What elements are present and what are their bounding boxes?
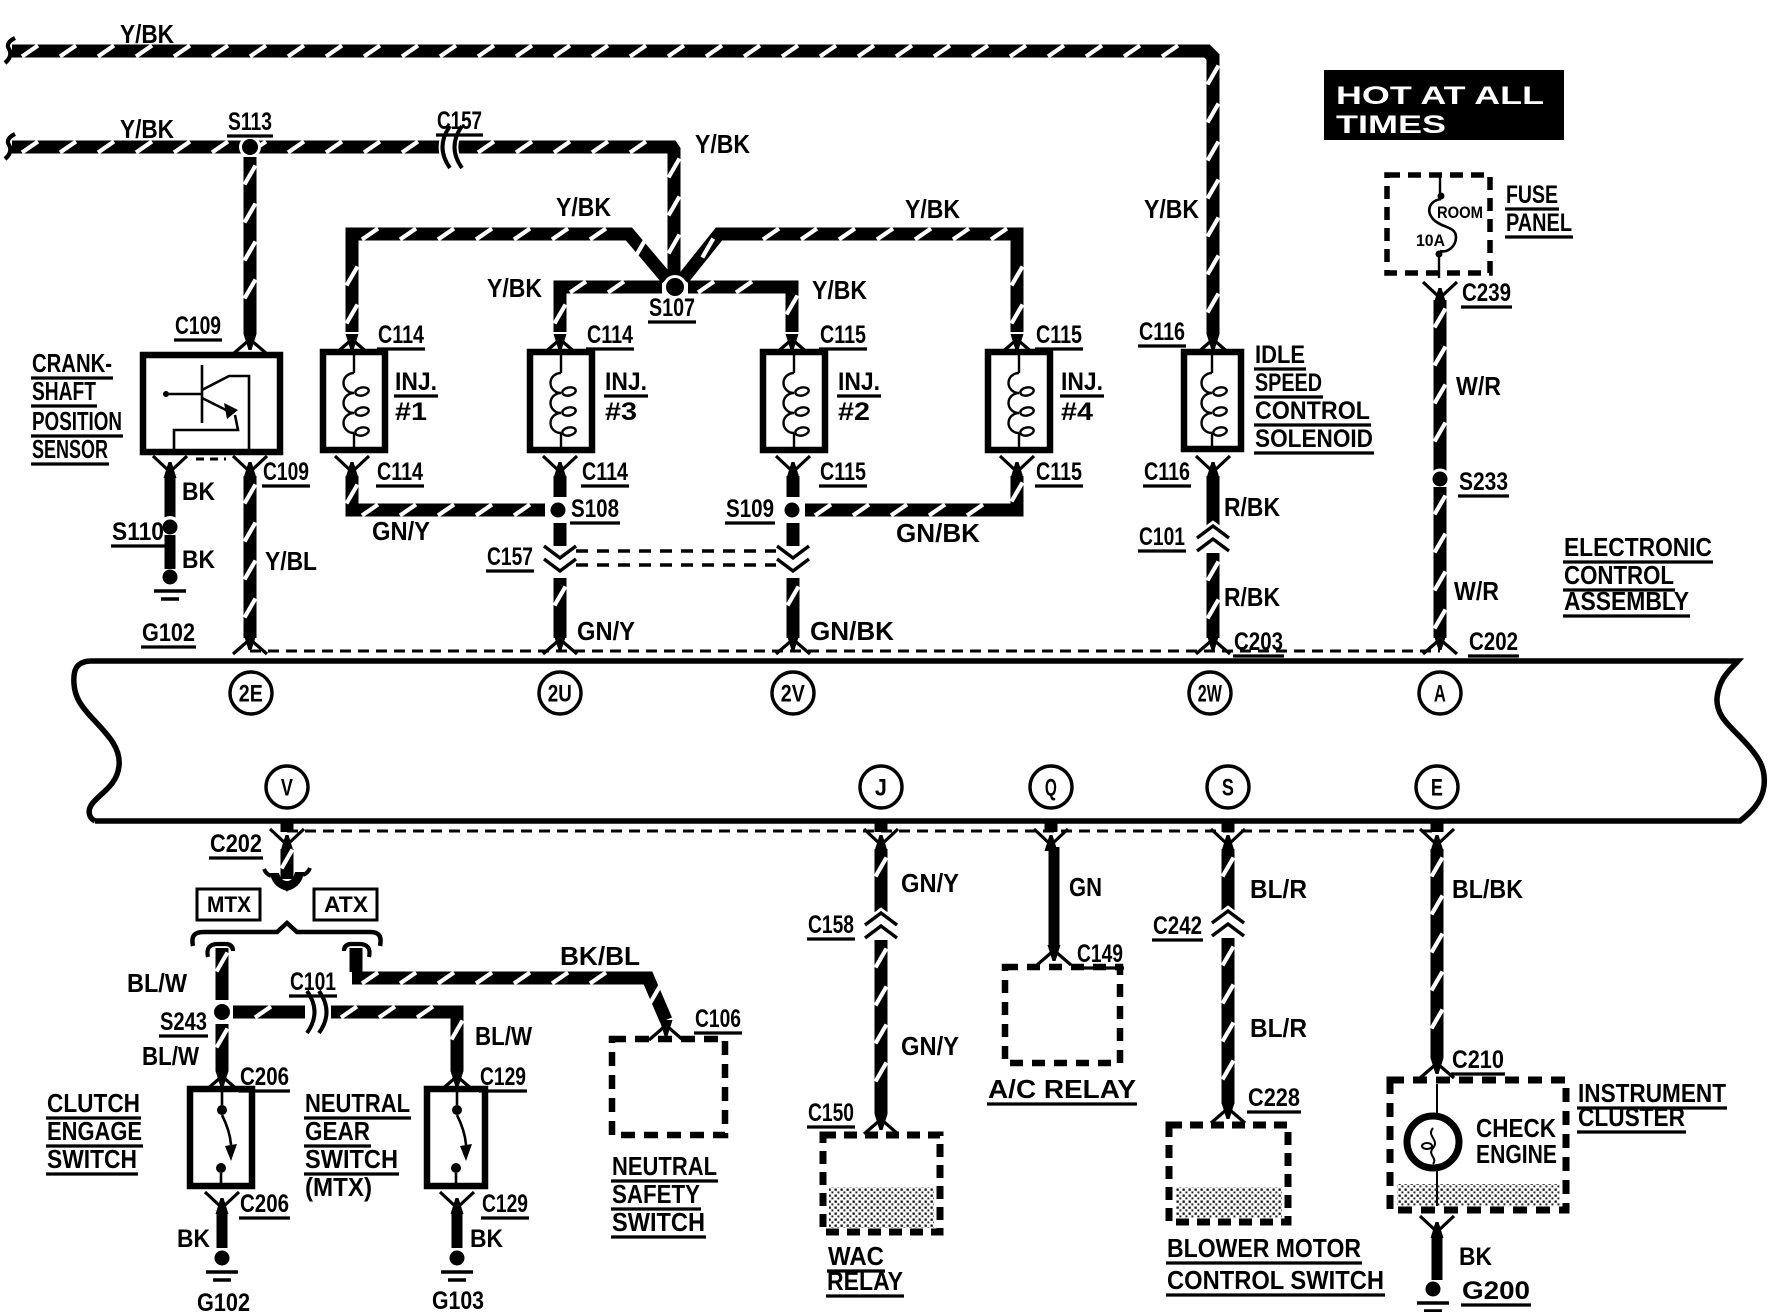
svg-text:BL/W: BL/W	[127, 968, 187, 998]
svg-text:IDLE: IDLE	[1255, 341, 1305, 369]
svg-text:CRANK-: CRANK-	[32, 348, 112, 378]
svg-text:ATX: ATX	[324, 892, 368, 917]
svg-text:V: V	[281, 775, 293, 802]
svg-text:ELECTRONIC: ELECTRONIC	[1564, 532, 1712, 562]
svg-text:G102: G102	[197, 1289, 250, 1312]
svg-text:S233: S233	[1459, 468, 1508, 496]
svg-text:C202: C202	[210, 830, 262, 858]
svg-text:C228: C228	[1248, 1084, 1300, 1112]
svg-text:Y/BK: Y/BK	[120, 114, 174, 144]
svg-text:C157: C157	[487, 543, 533, 571]
svg-text:A: A	[1434, 681, 1446, 708]
svg-text:C202: C202	[1469, 628, 1518, 656]
svg-text:C129: C129	[482, 1190, 528, 1218]
svg-text:C116: C116	[1144, 458, 1190, 486]
svg-text:BL/W: BL/W	[142, 1041, 199, 1071]
svg-text:BK/BL: BK/BL	[560, 941, 640, 971]
svg-text:2W: 2W	[1198, 681, 1222, 708]
svg-text:NEUTRAL: NEUTRAL	[612, 1151, 717, 1181]
svg-text:2E: 2E	[239, 681, 263, 708]
svg-text:SWITCH: SWITCH	[47, 1144, 137, 1174]
svg-text:BK: BK	[182, 546, 215, 574]
svg-text:CLUSTER: CLUSTER	[1578, 1102, 1685, 1132]
svg-text:HOT AT ALL: HOT AT ALL	[1336, 82, 1544, 110]
svg-text:Y/BK: Y/BK	[120, 19, 174, 49]
svg-text:S: S	[1222, 775, 1234, 802]
svg-text:(MTX): (MTX)	[305, 1172, 372, 1202]
svg-text:C114: C114	[582, 458, 628, 486]
svg-text:BK: BK	[1459, 1243, 1492, 1271]
svg-text:CLUTCH: CLUTCH	[47, 1088, 140, 1118]
svg-text:C114: C114	[378, 321, 424, 349]
svg-text:S243: S243	[160, 1008, 207, 1036]
svg-text:BL/R: BL/R	[1250, 874, 1307, 904]
svg-text:ROOM: ROOM	[1437, 203, 1483, 222]
svg-text:BK: BK	[177, 1225, 210, 1253]
svg-text:MTX: MTX	[207, 892, 251, 917]
svg-text:BL/BK: BL/BK	[1452, 874, 1523, 904]
svg-text:CONTROL: CONTROL	[1255, 397, 1370, 425]
svg-text:S113: S113	[228, 108, 272, 136]
svg-text:SENSOR: SENSOR	[32, 434, 108, 464]
svg-text:R/BK: R/BK	[1224, 492, 1280, 522]
svg-text:C129: C129	[480, 1063, 526, 1091]
svg-text:SWITCH: SWITCH	[305, 1144, 398, 1174]
svg-text:C109: C109	[175, 312, 221, 340]
svg-text:INJ.: INJ.	[1061, 368, 1103, 396]
svg-text:SOLENOID: SOLENOID	[1255, 425, 1373, 453]
svg-text:ENGAGE: ENGAGE	[47, 1116, 142, 1146]
svg-text:C157: C157	[437, 107, 482, 135]
svg-text:GEAR: GEAR	[305, 1116, 370, 1146]
svg-text:C206: C206	[240, 1063, 289, 1091]
svg-text:S110: S110	[112, 518, 164, 546]
svg-text:C239: C239	[1462, 279, 1511, 307]
svg-text:G102: G102	[142, 619, 195, 647]
svg-text:BK: BK	[470, 1225, 503, 1253]
svg-text:C115: C115	[1036, 458, 1082, 486]
svg-text:A/C RELAY: A/C RELAY	[988, 1074, 1136, 1104]
svg-text:SAFETY: SAFETY	[612, 1179, 700, 1209]
svg-text:BK: BK	[182, 478, 215, 506]
svg-text:C150: C150	[808, 1099, 854, 1127]
svg-text:C158: C158	[808, 911, 854, 939]
svg-text:C115: C115	[1036, 321, 1082, 349]
svg-text:BL/W: BL/W	[475, 1021, 532, 1051]
svg-text:CONTROL SWITCH: CONTROL SWITCH	[1167, 1265, 1384, 1295]
svg-text:Y/BK: Y/BK	[695, 129, 750, 159]
svg-text:INJ.: INJ.	[605, 368, 647, 396]
svg-text:RELAY: RELAY	[827, 1266, 903, 1296]
svg-text:G200: G200	[1462, 1277, 1530, 1305]
svg-text:2U: 2U	[548, 681, 572, 708]
svg-text:W/R: W/R	[1456, 371, 1501, 401]
svg-text:C115: C115	[820, 458, 866, 486]
svg-text:INJ.: INJ.	[395, 368, 437, 396]
svg-text:S109: S109	[726, 495, 774, 523]
svg-text:POSITION: POSITION	[32, 406, 122, 436]
svg-text:S108: S108	[571, 495, 619, 523]
svg-text:GN/Y: GN/Y	[372, 516, 430, 546]
svg-text:ENGINE: ENGINE	[1476, 1139, 1557, 1169]
svg-text:#4: #4	[1061, 398, 1093, 426]
svg-text:GN/BK: GN/BK	[810, 616, 894, 646]
svg-text:Y/BK: Y/BK	[556, 192, 611, 222]
svg-text:C206: C206	[240, 1190, 289, 1218]
svg-text:C114: C114	[377, 458, 423, 486]
svg-text:C149: C149	[1077, 940, 1123, 968]
svg-text:E: E	[1431, 775, 1443, 802]
svg-text:C101: C101	[1139, 523, 1185, 551]
svg-text:GN/Y: GN/Y	[901, 868, 959, 898]
svg-text:C115: C115	[820, 321, 866, 349]
svg-text:C242: C242	[1153, 912, 1202, 940]
svg-text:TIMES: TIMES	[1336, 111, 1446, 139]
svg-text:Y/BK: Y/BK	[487, 273, 542, 303]
svg-text:G103: G103	[432, 1287, 484, 1312]
svg-text:NEUTRAL: NEUTRAL	[305, 1088, 410, 1118]
svg-text:C114: C114	[587, 321, 633, 349]
svg-text:Y/BL: Y/BL	[265, 546, 317, 576]
svg-text:SHAFT: SHAFT	[32, 376, 96, 406]
svg-text:BLOWER MOTOR: BLOWER MOTOR	[1167, 1233, 1361, 1263]
svg-text:SPEED: SPEED	[1255, 369, 1322, 397]
svg-text:#1: #1	[395, 398, 427, 426]
svg-text:ASSEMBLY: ASSEMBLY	[1564, 586, 1689, 616]
svg-text:Y/BK: Y/BK	[812, 275, 867, 305]
svg-text:GN/BK: GN/BK	[896, 518, 980, 548]
svg-text:PANEL: PANEL	[1506, 209, 1572, 237]
svg-text:#3: #3	[605, 398, 637, 426]
svg-text:R/BK: R/BK	[1224, 582, 1280, 612]
svg-text:Y/BK: Y/BK	[905, 194, 960, 224]
svg-text:GN/Y: GN/Y	[577, 616, 635, 646]
svg-text:S107: S107	[649, 294, 695, 322]
svg-text:C109: C109	[263, 458, 309, 486]
svg-text:10A: 10A	[1416, 231, 1445, 250]
svg-text:Q: Q	[1045, 775, 1057, 802]
svg-text:GN: GN	[1069, 872, 1102, 902]
svg-text:GN/Y: GN/Y	[901, 1031, 959, 1061]
svg-text:Y/BK: Y/BK	[1144, 194, 1199, 224]
svg-text:C203: C203	[1234, 628, 1283, 656]
svg-text:C210: C210	[1452, 1046, 1504, 1074]
svg-text:W/R: W/R	[1454, 576, 1499, 606]
svg-text:C106: C106	[695, 1005, 741, 1033]
svg-text:BL/R: BL/R	[1250, 1013, 1307, 1043]
svg-text:#2: #2	[838, 398, 870, 426]
svg-text:2V: 2V	[781, 681, 805, 708]
svg-text:C101: C101	[290, 968, 336, 996]
svg-text:INJ.: INJ.	[838, 368, 880, 396]
svg-text:C116: C116	[1139, 318, 1185, 346]
svg-text:FUSE: FUSE	[1506, 181, 1558, 209]
svg-text:SWITCH: SWITCH	[612, 1207, 705, 1237]
svg-text:J: J	[875, 775, 887, 802]
